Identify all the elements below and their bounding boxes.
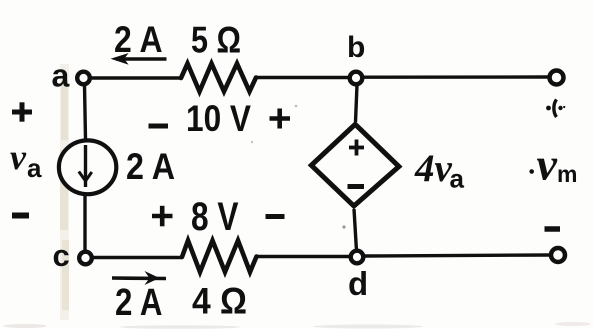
svg-text:c: c — [53, 238, 70, 273]
terminal (top right) — [550, 71, 564, 85]
wire — [257, 255, 350, 258]
wire — [85, 85, 86, 139]
svg-text:a: a — [450, 164, 465, 194]
wire — [93, 256, 182, 259]
svg-text:v: v — [537, 139, 558, 190]
svg-text:8 V: 8 V — [191, 195, 239, 239]
svg-text:10 V: 10 V — [186, 98, 251, 139]
voltage label - 10 V + — [149, 98, 291, 139]
svg-text:2 A: 2 A — [126, 146, 175, 187]
wire — [365, 255, 550, 256]
node d — [348, 251, 368, 302]
svg-text:5 Ω: 5 Ω — [191, 19, 241, 61]
wire — [356, 85, 358, 122]
node c — [53, 238, 92, 273]
terminal (bottom right) — [551, 248, 565, 262]
svg-text:v: v — [10, 137, 27, 177]
wire — [354, 209, 357, 251]
resistor R2 4 ohm — [182, 241, 257, 322]
label + (va polarity top) — [12, 102, 32, 121]
label vm — [529, 139, 577, 190]
svg-text:m: m — [557, 161, 577, 187]
wire — [256, 76, 348, 79]
wire — [364, 75, 548, 79]
svg-text:2 A: 2 A — [115, 282, 163, 324]
svg-text:4 Ω: 4 Ω — [192, 280, 247, 322]
svg-text:a: a — [27, 153, 42, 183]
label - (va polarity bottom) — [12, 213, 29, 219]
svg-text:b: b — [347, 31, 365, 64]
resistor R1 5 ohm — [181, 19, 256, 92]
dependent source 4va — [311, 124, 464, 206]
current source I1 2 A — [59, 140, 175, 194]
svg-text:a: a — [52, 58, 70, 94]
current arrow 2 A (bottom, pointing right) — [112, 271, 166, 324]
voltage label + 8 V - — [152, 195, 285, 239]
label + (vm polarity top, faint mark) — [546, 100, 565, 118]
node a — [52, 58, 90, 94]
wire — [83, 196, 86, 251]
node b — [347, 31, 365, 84]
svg-text:d: d — [348, 265, 368, 302]
svg-text:2 A: 2 A — [114, 18, 163, 60]
label va — [10, 137, 42, 183]
label - (vm polarity bottom) — [545, 226, 561, 232]
current arrow 2 A (top, pointing left) — [111, 18, 167, 65]
wire — [91, 76, 182, 79]
svg-text:4v: 4v — [414, 147, 453, 190]
